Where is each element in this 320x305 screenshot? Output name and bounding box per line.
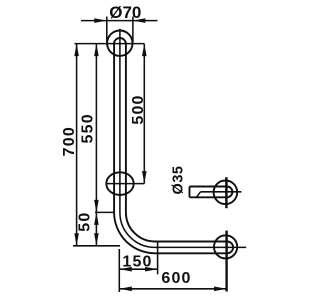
dim 550: dimension line [95,44,97,213]
dim 500: top arrow [142,44,147,57]
dim 550: top arrow [94,44,99,57]
dim 150: left arrow [119,267,132,272]
svg-text:700: 700 [61,126,78,156]
dim Ø70: right extension line [132,17,134,43]
dim 150: right extension line [157,242,159,275]
dim 150: left extension line (bar centerline) [118,249,120,292]
svg-text:Ø70: Ø70 [109,3,141,22]
dim 600: left arrow [119,287,132,292]
side mount centerline [201,191,242,193]
grab bar centerline [120,29,246,248]
dim Ø70: left arrow [94,18,107,23]
side mount bracket left end [189,187,191,198]
right flange circle [214,235,237,258]
side mount bracket tube bottom edge [190,196,228,198]
svg-text:500: 500 [130,94,147,124]
svg-text:550: 550 [80,113,97,143]
dim 500: bottom arrow [142,171,147,184]
dim 700: top arrow [74,44,79,57]
side mount vertical centerline [225,177,228,208]
svg-text:50: 50 [77,211,94,231]
dim 700: bottom arrow [74,233,79,246]
dim 600: dimension line [119,288,226,290]
svg-text:600: 600 [161,270,191,287]
dim Ø70: dimension line [81,20,158,22]
side mount tube cap arc [227,187,232,198]
dim 50: top arrow (pointing up at y=212.4) [94,212,99,225]
side mount flange circle [214,181,238,205]
right flange vertical centerline / 600 extension [225,231,227,292]
right flange tube cap arc [227,242,233,254]
dim 50: connecting line [95,212,97,245]
svg-text:150: 150 [122,253,152,270]
middle mount ellipse [106,172,133,195]
grab bar inner edge (vertical tube right edge, bend, horizontal tube top edge) [126,44,227,242]
dim 600: right arrow [214,287,227,292]
dim 150: right arrow [145,267,158,272]
top flange horizontal centerline / reference line y=43.6 [75,43,145,45]
dim 700: dimension line [76,44,78,246]
dim 550: bottom arrow [94,200,99,213]
dim 50: bottom arrow (pointing down at y=245.8) [94,233,99,246]
svg-text:Ø35: Ø35 [171,166,187,195]
side mount bracket tube top edge [190,186,228,188]
top flange outer circle [107,31,132,56]
reference line y=245.8 (tube top edge level) [73,245,120,247]
side mount bracket chisel diagonal [197,192,201,197]
dim 500: dimension line [143,44,145,184]
dim Ø70: right arrow [133,18,146,23]
dim Ø70: left extension line [106,17,108,43]
dim 150: dimension line [119,268,157,270]
top flange tube cap arc [114,38,126,44]
grab bar outer edge (vertical tube left edge, bend, horizontal tube bottom edge) [114,44,225,253]
middle mount centerline [106,183,144,185]
reference line y=212.4 (bend start) [95,211,115,213]
